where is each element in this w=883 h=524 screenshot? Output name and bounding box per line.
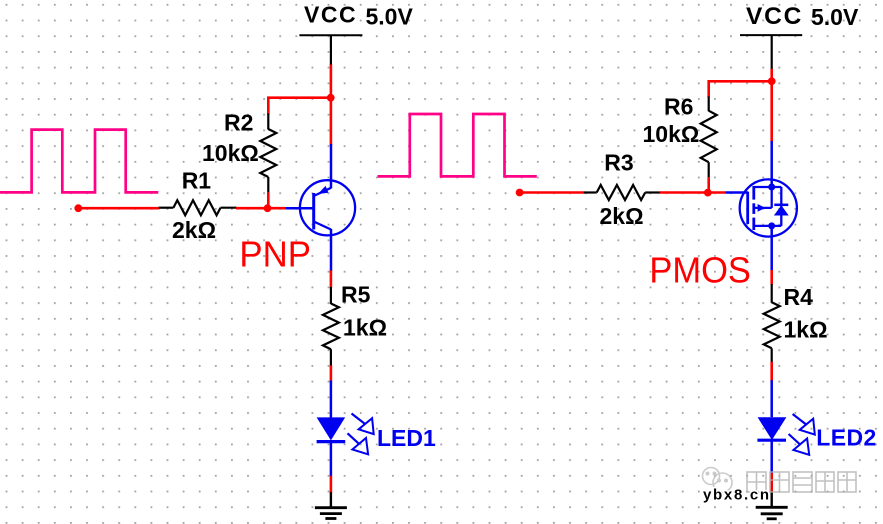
svg-text:2kΩ: 2kΩ bbox=[172, 217, 216, 243]
node input dot (left pulse source) bbox=[74, 204, 82, 212]
transistor Q2 gate bar bbox=[746, 192, 749, 224]
svg-text:10kΩ: 10kΩ bbox=[643, 121, 700, 147]
transistor Q2 channel segment middle bbox=[752, 203, 755, 214]
node junction dot at VCC/R6 (right) bbox=[768, 77, 776, 85]
wire VCC to source (right, red) bbox=[770, 69, 773, 142]
wire R5 to LED1 (red) bbox=[330, 365, 333, 381]
svg-text:10kΩ: 10kΩ bbox=[202, 140, 259, 166]
wire LED1 to ground (red) bbox=[330, 476, 333, 493]
svg-text:LED1: LED1 bbox=[377, 425, 436, 451]
diode LED1 triangle bbox=[317, 417, 346, 440]
diode LED2 cathode bar bbox=[757, 439, 786, 442]
watermark text (CJK glyph placeholders) bbox=[747, 472, 856, 492]
diode LED1 emission arrow 2 head bbox=[352, 438, 368, 454]
transistor Q1 emitter diagonal bbox=[314, 188, 331, 196]
transistor Q2 PMOS bbox=[740, 141, 797, 271]
transistor Q2 drain horizontal (top) bbox=[754, 186, 782, 188]
transistor Q2 body arrow head bbox=[758, 204, 766, 212]
svg-text:ybx8.cn: ybx8.cn bbox=[703, 486, 771, 503]
diode LED2 emission arrow 1 head bbox=[800, 419, 815, 435]
power VCC (right) bar symbol bbox=[740, 34, 802, 36]
svg-text:R5: R5 bbox=[341, 281, 371, 307]
transistor Q2 body diode triangle bbox=[774, 205, 789, 215]
transistor Q2 circle bbox=[740, 179, 797, 236]
transistor Q2 source lead (blue, from VCC) bbox=[770, 141, 773, 187]
pulse waveform (right input square wave) bbox=[378, 114, 537, 176]
svg-text:VCC: VCC bbox=[746, 3, 803, 30]
ground (right) bbox=[756, 507, 788, 519]
wire R5 bottom lead (black) bbox=[330, 349, 332, 366]
wire input to R3 (red) bbox=[520, 191, 585, 194]
transistor Q2 top junction dot bbox=[768, 184, 775, 191]
transistor Q1 collector diagonal bbox=[314, 222, 331, 230]
svg-text:PNP: PNP bbox=[239, 234, 311, 275]
wire collector to R5 (red) bbox=[330, 270, 333, 287]
resistor R6 bbox=[701, 111, 717, 163]
wire R3 left lead (black) bbox=[584, 191, 597, 193]
wire VCC to emitter (left, red) bbox=[330, 65, 333, 146]
pulse waveform (left input square wave) bbox=[0, 130, 158, 193]
svg-text:R3: R3 bbox=[604, 150, 633, 176]
wire R1 left lead (black) bbox=[159, 207, 174, 209]
transistor Q2 body diode vertical bbox=[780, 187, 782, 226]
wire VCC stub (left, black) bbox=[330, 35, 332, 66]
diode LED2 triangle bbox=[758, 417, 787, 440]
transistor Q1 emitter arrow bbox=[318, 186, 329, 194]
transistor Q2 body arrow line (middle) bbox=[754, 207, 772, 209]
resistor R1 bbox=[173, 200, 220, 215]
wire R6 bottom lead (black) bbox=[708, 162, 710, 177]
transistor Q1 emitter lead (blue, from VCC) bbox=[330, 144, 333, 188]
diode LED2 emission arrow 2 head bbox=[793, 439, 809, 455]
transistor Q2 bottom junction dot bbox=[768, 222, 775, 229]
resistor R3 bbox=[597, 185, 646, 200]
transistor Q2 drain lead bottom (blue) bbox=[770, 226, 773, 271]
wire R1 to base node (red) bbox=[236, 207, 285, 210]
watermark logo circles bbox=[703, 468, 733, 493]
node junction dot base node (left) bbox=[264, 204, 272, 212]
svg-text:PMOS: PMOS bbox=[649, 250, 751, 291]
transistor Q1 collector lead (blue) bbox=[330, 229, 333, 271]
node junction dot at VCC/R2 (left) bbox=[327, 94, 335, 102]
svg-text:1kΩ: 1kΩ bbox=[343, 314, 387, 340]
wire VCC stub (right, black) bbox=[771, 35, 773, 69]
wire input to R1 (red) bbox=[78, 207, 159, 210]
wire LED1 cathode (blue) bbox=[330, 442, 333, 477]
diode LED2 emission arrow 2 shaft bbox=[789, 434, 801, 445]
wire R6 top lead (black) bbox=[708, 97, 710, 112]
wire R6 top to VCC node (red) bbox=[709, 81, 772, 97]
wire R2 top to VCC node (red) bbox=[268, 98, 330, 115]
wire R5 top lead (black) bbox=[330, 287, 332, 304]
resistor R5 bbox=[323, 304, 339, 350]
svg-text:2kΩ: 2kΩ bbox=[600, 203, 644, 229]
wire R6 bottom to gate node (red) bbox=[707, 177, 710, 193]
svg-text:R2: R2 bbox=[224, 109, 253, 135]
transistor Q1 PNP bbox=[285, 144, 355, 271]
diode LED1 emission arrow 1 shaft bbox=[352, 414, 366, 425]
power VCC (left) bar symbol bbox=[299, 34, 362, 36]
wire drain to R4 (red) bbox=[770, 270, 773, 285]
wire LED2 anode (blue) bbox=[770, 380, 773, 417]
wire gate lead (blue) bbox=[725, 191, 748, 194]
svg-text:5.0V: 5.0V bbox=[811, 4, 859, 30]
wire ground lead (left, black) bbox=[330, 492, 332, 508]
transistor Q2 source-body tie vertical bbox=[771, 187, 773, 208]
transistor Q1 base bar bbox=[312, 193, 315, 230]
diode LED2 emission arrow 1 shaft bbox=[793, 414, 807, 425]
wire R4 to LED2 (red) bbox=[770, 362, 773, 381]
wire R3 right lead (black) bbox=[645, 191, 660, 193]
svg-text:VCC: VCC bbox=[304, 1, 357, 27]
node input dot (right pulse source) bbox=[516, 189, 524, 197]
resistor R2 bbox=[260, 129, 276, 177]
svg-text:R1: R1 bbox=[182, 168, 212, 194]
wire R3 to gate node (red) bbox=[660, 191, 726, 194]
svg-text:R4: R4 bbox=[784, 284, 814, 310]
transistor Q1 base lead bbox=[285, 207, 313, 210]
wire LED1 anode (blue) bbox=[330, 381, 333, 419]
wire LED2 cathode (blue) bbox=[770, 440, 773, 474]
diode LED1 emission arrow 2 shaft bbox=[348, 433, 360, 444]
transistor Q2 channel segment bottom bbox=[752, 218, 755, 230]
resistor R4 bbox=[764, 302, 780, 348]
diode LED1 cathode bar bbox=[317, 440, 346, 443]
svg-text:R6: R6 bbox=[664, 94, 693, 120]
diode LED1 emission arrow 1 head bbox=[359, 418, 374, 434]
wire R4 top lead (black) bbox=[771, 284, 773, 303]
svg-text:LED2: LED2 bbox=[816, 425, 876, 451]
transistor Q1 circle bbox=[300, 180, 355, 235]
wire R2 bottom lead (black) bbox=[267, 177, 269, 192]
svg-text:1kΩ: 1kΩ bbox=[784, 316, 828, 342]
wire R2 bottom to base node (red) bbox=[267, 192, 270, 208]
svg-text:5.0V: 5.0V bbox=[366, 4, 414, 30]
wire LED2 to ground (red) bbox=[770, 473, 773, 492]
ground (left) bbox=[315, 508, 347, 519]
transistor Q2 bottom horizontal (drain) bbox=[754, 225, 782, 227]
node junction dot gate node (right) bbox=[704, 189, 712, 197]
wire R1 right lead (black) bbox=[221, 207, 237, 209]
transistor Q2 body diode cathode bar bbox=[774, 204, 788, 207]
wire R4 bottom lead (black) bbox=[771, 348, 773, 362]
wire ground lead (right, black) bbox=[771, 492, 773, 508]
transistor Q2 channel segment top bbox=[752, 186, 755, 200]
wire R2 top lead (black) bbox=[267, 114, 269, 130]
